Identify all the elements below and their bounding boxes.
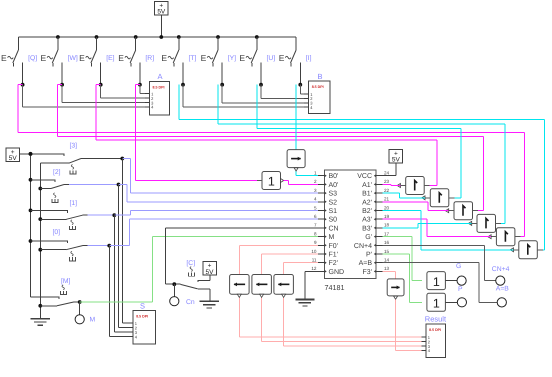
svg-text:[M]: [M] <box>61 278 71 285</box>
svg-text:9: 9 <box>314 240 317 245</box>
svg-text:8.5 DPI: 8.5 DPI <box>136 315 148 319</box>
svg-text:5V: 5V <box>206 269 215 276</box>
svg-text:8: 8 <box>314 231 317 236</box>
svg-text:16: 16 <box>384 240 390 245</box>
svg-text:[R]: [R] <box>145 55 154 62</box>
svg-text:B: B <box>318 72 323 81</box>
svg-text:22: 22 <box>384 188 390 193</box>
svg-text:G: G <box>456 263 461 270</box>
svg-text:[I]: [I] <box>306 55 312 62</box>
svg-text:[C]: [C] <box>186 260 195 267</box>
svg-text:[U]: [U] <box>267 55 276 62</box>
svg-text:CN+4: CN+4 <box>492 266 510 273</box>
svg-text:CN+4: CN+4 <box>354 243 372 250</box>
svg-text:12: 12 <box>311 266 317 271</box>
svg-text:B3': B3' <box>362 225 372 232</box>
svg-text:3: 3 <box>314 188 317 193</box>
svg-text:S1: S1 <box>329 208 338 215</box>
svg-text:5V: 5V <box>9 155 18 162</box>
svg-text:5: 5 <box>314 205 317 210</box>
svg-text:8.5 DPI: 8.5 DPI <box>429 328 441 332</box>
svg-text:E: E <box>118 53 124 63</box>
svg-text:Cn: Cn <box>186 299 195 306</box>
svg-text:7: 7 <box>314 223 317 228</box>
svg-text:M: M <box>329 234 335 241</box>
svg-text:E: E <box>1 53 7 63</box>
svg-text:5V: 5V <box>157 9 166 16</box>
svg-text:E: E <box>41 53 47 63</box>
svg-text:A3': A3' <box>362 217 372 224</box>
svg-text:B0': B0' <box>329 173 339 180</box>
svg-text:F2': F2' <box>329 260 339 267</box>
svg-text:19: 19 <box>384 214 390 219</box>
svg-text:VCC: VCC <box>357 173 372 180</box>
svg-text:A1': A1' <box>362 182 372 189</box>
svg-text:F0': F0' <box>329 243 339 250</box>
svg-text:P': P' <box>366 252 372 259</box>
svg-text:A2': A2' <box>362 199 372 206</box>
svg-text:E: E <box>239 53 245 63</box>
svg-text:A: A <box>158 72 163 81</box>
svg-text:17: 17 <box>384 231 390 236</box>
svg-text:A=B: A=B <box>496 286 510 293</box>
svg-text:F3': F3' <box>362 269 372 276</box>
svg-text:GND: GND <box>329 269 345 276</box>
svg-text:E: E <box>201 53 207 63</box>
svg-text:8.5 DPI: 8.5 DPI <box>312 85 324 89</box>
svg-text:[T]: [T] <box>189 55 197 62</box>
svg-text:Result: Result <box>425 314 447 323</box>
svg-text:[W]: [W] <box>68 55 78 62</box>
svg-text:11: 11 <box>312 258 317 263</box>
svg-text:[2]: [2] <box>53 169 61 176</box>
svg-text:P: P <box>458 286 463 293</box>
svg-text:A0': A0' <box>329 182 339 189</box>
svg-text:[E]: [E] <box>106 55 114 62</box>
svg-text:18: 18 <box>384 223 390 228</box>
svg-text:[3]: [3] <box>70 143 78 150</box>
svg-text:1: 1 <box>433 275 440 289</box>
svg-text:S2: S2 <box>329 199 338 206</box>
svg-text:S: S <box>140 302 145 311</box>
svg-text:10: 10 <box>311 249 317 254</box>
svg-text:1: 1 <box>268 175 275 189</box>
svg-text:13: 13 <box>384 266 390 271</box>
svg-text:2: 2 <box>314 179 317 184</box>
svg-text:1: 1 <box>314 171 317 176</box>
svg-text:[Y]: [Y] <box>228 55 236 62</box>
svg-text:[0]: [0] <box>53 229 61 236</box>
svg-text:8.5 DPI: 8.5 DPI <box>153 86 165 90</box>
svg-text:A=B: A=B <box>359 260 373 267</box>
svg-text:5V: 5V <box>392 157 401 164</box>
svg-text:74181: 74181 <box>325 283 345 292</box>
svg-text:6: 6 <box>314 214 317 219</box>
svg-text:E: E <box>161 53 167 63</box>
svg-text:S3: S3 <box>329 191 338 198</box>
svg-text:E: E <box>79 53 85 63</box>
svg-text:23: 23 <box>384 179 390 184</box>
svg-text:15: 15 <box>384 249 390 254</box>
svg-text:F1': F1' <box>329 252 339 259</box>
svg-text:CN: CN <box>329 225 339 232</box>
svg-text:M: M <box>90 317 96 324</box>
svg-text:14: 14 <box>384 258 390 263</box>
svg-text:[1]: [1] <box>70 200 78 207</box>
svg-text:B1': B1' <box>362 191 372 198</box>
svg-text:21: 21 <box>384 197 390 202</box>
svg-text:[Q]: [Q] <box>28 55 37 62</box>
svg-text:4: 4 <box>314 197 317 202</box>
svg-text:20: 20 <box>384 205 390 210</box>
svg-text:G': G' <box>365 234 372 241</box>
svg-text:B2': B2' <box>362 208 372 215</box>
svg-text:1: 1 <box>433 297 440 311</box>
svg-text:24: 24 <box>384 171 390 176</box>
svg-text:S0: S0 <box>329 217 338 224</box>
svg-text:E: E <box>279 53 285 63</box>
